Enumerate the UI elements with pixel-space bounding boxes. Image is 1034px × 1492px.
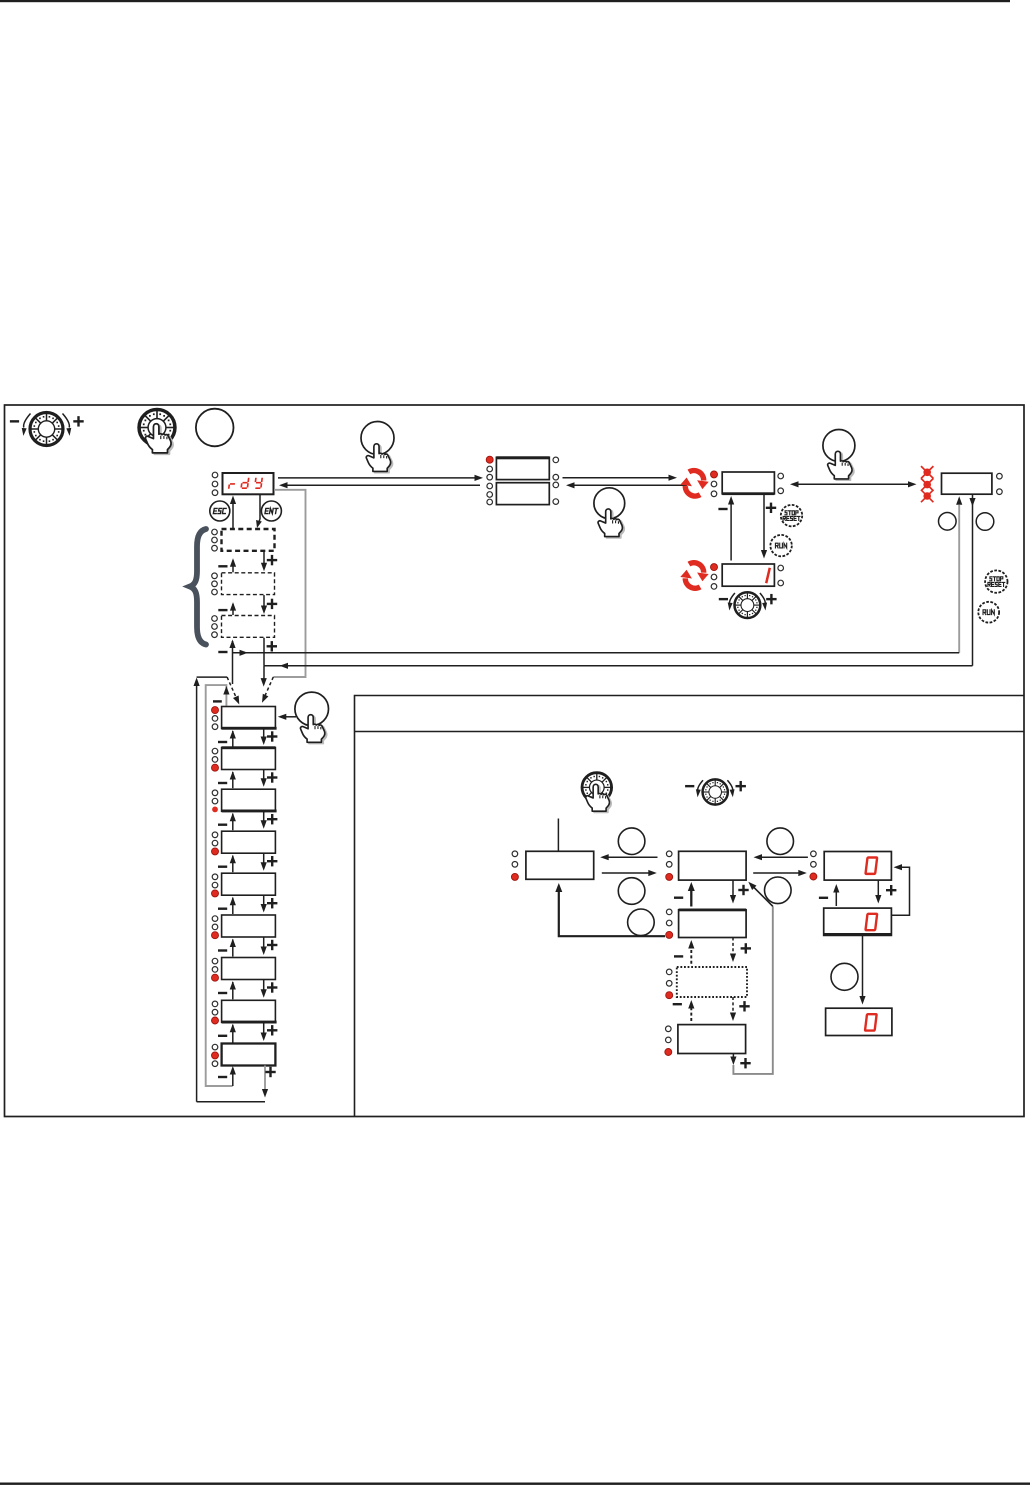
- menu gap 4 minus arrow up: [218, 855, 236, 873]
- return path C to A: [555, 883, 665, 936]
- dashed menu box 1 LEDs: [212, 529, 218, 551]
- menu gap 8 minus arrow up: [218, 1024, 236, 1043]
- arrow D to B: [754, 854, 808, 860]
- STOP RESET button mid: [781, 505, 802, 526]
- menu box 4 LEDs: [212, 832, 219, 855]
- box A: [526, 851, 594, 879]
- group3 box2 LEDs: [711, 564, 718, 590]
- legend jog dial pressed by hand: [139, 410, 175, 455]
- hand press circle 3 at column box1: [278, 692, 329, 744]
- menu box 5: [222, 873, 276, 895]
- hand press circle 2: [594, 488, 625, 538]
- below dashed box3 plus line down: [264, 638, 277, 666]
- fault box: [942, 473, 992, 494]
- sub panel header line: [355, 731, 1025, 733]
- black line down from fault box: [969, 494, 975, 665]
- box C: [679, 910, 747, 938]
- group3 box2: [722, 564, 774, 586]
- line E down to H: [859, 935, 865, 1004]
- group3 box1: [722, 472, 774, 494]
- group3 box1 LEDs: [711, 471, 718, 497]
- menu box 9: [222, 1044, 276, 1066]
- dashed gap 2 plus arrow down: [261, 595, 277, 614]
- menu gap 6 plus arrow down: [261, 937, 278, 955]
- red cycle icon 2: [680, 563, 708, 589]
- box B: [679, 851, 747, 880]
- menu box 7: [222, 958, 276, 980]
- outer loop left vertical: [194, 677, 228, 1102]
- jog dial below group3 box2: [719, 592, 777, 618]
- group3 box2 red one digit: [766, 568, 770, 583]
- menu gap 6 minus arrow up: [218, 939, 236, 957]
- menu gap 5 plus arrow down: [261, 895, 278, 912]
- fault group circle button left: [939, 513, 957, 531]
- menu gap 8 plus arrow down: [261, 1022, 278, 1041]
- menu box 6 LEDs: [212, 916, 219, 939]
- menu box 7 LEDs: [212, 958, 219, 981]
- RUN button mid: [770, 535, 791, 556]
- menu box 8: [222, 1000, 276, 1022]
- sub dial pressed icon: [582, 773, 612, 813]
- hand press circle 4: [823, 430, 855, 481]
- below dashed box3 minus arrow up: [218, 640, 235, 685]
- menu gap 2 plus arrow down: [261, 770, 278, 787]
- gray diagonal into column box1 from rdy path: [262, 677, 273, 703]
- box E red zero: [865, 914, 877, 930]
- ESC circle 2: [618, 878, 645, 905]
- ESC circle 1: [618, 828, 645, 855]
- menu box 2 LEDs: [212, 748, 219, 771]
- box G LEDs: [665, 1026, 672, 1056]
- box F LEDs: [666, 969, 673, 999]
- group2 left LEDs: [486, 456, 493, 505]
- menu box 2: [222, 748, 276, 770]
- dashed gap 1 plus arrow down: [261, 551, 277, 571]
- gray return line up into fault box: [956, 496, 962, 653]
- box C LEDs: [666, 909, 673, 938]
- sub dial with minus plus: [685, 779, 746, 804]
- menu gap 1 minus arrow up: [218, 730, 236, 747]
- box H red zero: [865, 1014, 877, 1030]
- box B LEDs: [666, 851, 673, 880]
- menu gap 7 minus arrow up: [218, 981, 236, 999]
- RUN button right: [978, 602, 999, 623]
- group2 lower box: [496, 483, 549, 505]
- dashed menu box 2: [222, 573, 275, 595]
- dashed menu box 3 LEDs: [212, 616, 218, 638]
- circle between E and H: [831, 963, 858, 990]
- circle between B and D bottom: [765, 877, 792, 904]
- B-C minus arrow up: [674, 882, 695, 907]
- menu gap 3 minus arrow up: [218, 813, 236, 831]
- menu gap 3 plus arrow down: [261, 811, 278, 829]
- menu box 5 LEDs: [212, 874, 219, 897]
- ESC button: [210, 501, 230, 521]
- arrow down from rdy to first dashed box (ENT): [256, 495, 262, 529]
- menu gap 4 plus arrow down: [261, 853, 278, 871]
- hand press circle 1: [361, 422, 394, 473]
- group3 plus arrow down: [761, 495, 776, 559]
- rdy 7-segment text: [229, 478, 262, 489]
- red cycle icon 1: [680, 471, 708, 497]
- D-E plus arrow down: [875, 881, 896, 904]
- arrow up from first dashed box to rdy (ESC): [230, 496, 236, 529]
- dashed menu box 2 LEDs: [212, 573, 218, 595]
- flashing LEDs with red cross: [921, 466, 933, 478]
- ENT button: [261, 501, 281, 521]
- inner gray loop: [206, 685, 233, 1086]
- ESC circle 3: [628, 909, 655, 936]
- arrow B to D: [753, 870, 807, 876]
- menu box 4: [222, 831, 276, 853]
- menu gap 2 minus arrow up: [218, 771, 236, 788]
- legend plain circle button: [196, 409, 234, 447]
- top page rule: [0, 0, 1010, 2]
- C-F plus dashed arrow down: [730, 938, 751, 963]
- menu gap 1 plus arrow down: [261, 729, 278, 746]
- bottom page rule: [0, 1483, 1030, 1485]
- legend jog dial with minus plus: [10, 413, 84, 446]
- rdy display box: [223, 473, 274, 494]
- menu box 1 LEDs: [212, 707, 219, 730]
- circle between B and D top: [767, 828, 794, 855]
- arrow A to B: [602, 870, 657, 876]
- group2 right LEDs: [553, 457, 559, 504]
- connector down from return to column: [261, 666, 267, 687]
- dashed gap 2 minus arrow up: [218, 602, 236, 615]
- fault box right LEDs: [997, 473, 1003, 494]
- D-E minus arrow up: [819, 884, 840, 906]
- dashed gap 1 minus arrow up: [218, 558, 236, 572]
- outer loop bottom: [197, 1101, 265, 1103]
- menu box 3 LEDs: [212, 790, 218, 812]
- double arrow group3 to fault box: [790, 481, 917, 487]
- box F dotted: [677, 967, 747, 997]
- dashed menu box 3: [222, 616, 275, 638]
- box G: [678, 1025, 746, 1054]
- G plus exit down and return to B: [730, 882, 773, 1074]
- arrow menu box to rdy (left): [279, 482, 480, 488]
- box E: [824, 908, 892, 935]
- below last box plus gray line down: [262, 1066, 276, 1098]
- F-G plus dashed arrow down: [730, 997, 750, 1021]
- arrow group3 to group2 (left): [566, 482, 687, 488]
- arrow rdy to menu box (right): [278, 475, 483, 481]
- line into box A top: [557, 819, 559, 852]
- long connector minus line: [233, 650, 960, 656]
- minus label at column box1 top: [213, 700, 222, 702]
- group2 upper box: [496, 457, 549, 479]
- menu box 6: [222, 915, 276, 937]
- box A LEDs: [511, 851, 518, 880]
- below last box minus arrow up: [218, 1066, 236, 1086]
- sub panel frame: [355, 696, 1025, 1117]
- outer loop dashed diagonal into column box1: [227, 677, 239, 704]
- menu box 8 LEDs: [212, 1001, 219, 1024]
- C-F minus dashed arrow up: [674, 940, 694, 964]
- main diagram frame: [5, 405, 1025, 1117]
- rdy display LEDs: [212, 472, 218, 495]
- arrow B to A: [600, 854, 657, 860]
- group3 minus arrow up: [718, 496, 734, 561]
- STOP RESET button right: [985, 570, 1007, 592]
- box D: [824, 852, 891, 881]
- menu gap 5 minus arrow up: [218, 897, 236, 914]
- group3 box1 right LEDs: [778, 473, 784, 493]
- dashed menu box 1: [222, 529, 275, 551]
- fault group circle button right: [976, 513, 994, 531]
- gray return path from rdy box down to column: [273, 490, 305, 677]
- menu gap 7 plus arrow down: [261, 980, 278, 998]
- group3 box2 right LEDs: [778, 565, 784, 586]
- menu box 9 LEDs: [212, 1044, 219, 1066]
- box D LEDs: [810, 851, 817, 880]
- B-C plus arrow down: [730, 881, 749, 904]
- curly brace for dashed menus: [190, 529, 206, 645]
- box D red zero: [865, 858, 877, 874]
- box H: [826, 1008, 892, 1035]
- menu box 1: [222, 707, 276, 729]
- long connector return line: [264, 663, 973, 669]
- loop E to D: [891, 864, 909, 915]
- arrow group2 to group3 (right): [563, 475, 678, 481]
- menu box 3: [222, 789, 276, 811]
- F-G minus dashed arrow up: [673, 1000, 695, 1021]
